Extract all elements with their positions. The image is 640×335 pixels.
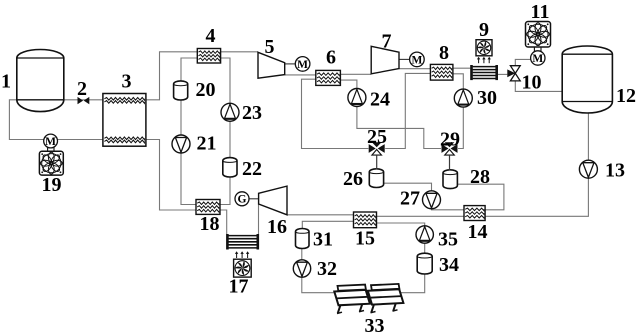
svg-text:33: 33 [365,315,385,335]
svg-text:11: 11 [531,1,550,23]
svg-text:21: 21 [197,132,217,154]
svg-text:30: 30 [477,87,497,109]
svg-text:2: 2 [77,78,87,100]
svg-text:27: 27 [400,187,420,209]
svg-text:15: 15 [355,227,375,249]
svg-text:20: 20 [196,79,216,101]
svg-text:28: 28 [470,166,490,188]
svg-text:26: 26 [343,168,363,190]
svg-text:M: M [411,54,422,66]
svg-text:35: 35 [438,228,458,250]
svg-text:8: 8 [439,42,449,64]
svg-text:12: 12 [616,85,636,107]
svg-text:M: M [45,136,56,148]
svg-text:34: 34 [439,254,459,276]
svg-text:17: 17 [229,275,249,297]
svg-text:M: M [297,59,308,71]
svg-text:29: 29 [440,128,460,150]
svg-text:10: 10 [522,71,542,93]
svg-text:24: 24 [370,88,390,110]
svg-text:19: 19 [42,174,62,196]
svg-text:G: G [238,194,247,206]
svg-text:31: 31 [313,228,333,250]
svg-text:23: 23 [242,102,262,124]
svg-text:22: 22 [242,158,262,180]
svg-text:3: 3 [122,70,132,92]
svg-text:9: 9 [479,19,489,41]
svg-text:4: 4 [206,25,216,47]
svg-text:M: M [532,53,543,65]
svg-text:16: 16 [267,216,287,238]
svg-text:18: 18 [200,213,220,235]
svg-text:32: 32 [317,258,337,280]
svg-text:1: 1 [1,70,11,92]
svg-text:7: 7 [382,30,392,52]
svg-text:5: 5 [265,36,275,58]
svg-text:14: 14 [468,221,488,243]
svg-text:6: 6 [326,46,336,68]
svg-text:13: 13 [605,159,625,181]
svg-text:25: 25 [367,126,387,148]
